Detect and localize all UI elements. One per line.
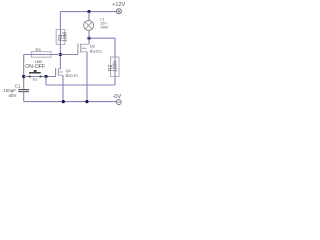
resistor R1 xyxy=(56,30,65,45)
wire Q2 drain lead xyxy=(88,38,90,44)
transistor Q1 bulk stub with arrow xyxy=(60,71,64,73)
transistor Q2 bulk stub with arrow xyxy=(83,47,88,49)
wire Q2 source lead xyxy=(86,52,88,102)
wire node A to R3 xyxy=(24,54,61,56)
transistor Q1 channel xyxy=(57,69,59,76)
transistor Q1 source stub xyxy=(58,74,63,76)
capacitor C1 xyxy=(18,89,29,91)
svg-text:10M: 10M xyxy=(63,32,69,42)
svg-text:S1: S1 xyxy=(32,77,38,82)
svg-text:R3: R3 xyxy=(36,47,42,52)
svg-text:10W: 10W xyxy=(100,26,108,30)
svg-text:100k: 100k xyxy=(112,61,118,72)
switch S1 actuator knob xyxy=(34,70,37,72)
transistor Q1 gate bar xyxy=(55,68,57,77)
svg-text:BS170: BS170 xyxy=(66,73,79,78)
wire C1 bottom lead xyxy=(23,92,25,101)
svg-text:-0V: -0V xyxy=(113,94,122,100)
junction dot Q1 source on rail xyxy=(62,100,65,103)
svg-text:BUZ11: BUZ11 xyxy=(90,49,103,54)
svg-text:ON-OFF: ON-OFF xyxy=(25,64,45,70)
lamp L1 xyxy=(84,20,94,30)
switch S1 right contact xyxy=(39,75,41,77)
wire R2 lead through xyxy=(89,38,115,85)
wire top rail +12V xyxy=(60,11,116,13)
wire Q1 drain lead xyxy=(59,55,61,69)
wire bottom rail xyxy=(24,101,117,103)
wire node C down xyxy=(45,77,47,86)
svg-text:40V: 40V xyxy=(8,93,16,98)
wire node A to Q2 gate xyxy=(60,54,78,56)
node B junction dot xyxy=(22,75,25,78)
transistor Q1 drain stub xyxy=(58,68,60,70)
terminal 0V xyxy=(116,100,121,105)
wire lamp bottom lead to node D xyxy=(88,30,90,38)
switch S1 pushbutton bridge xyxy=(29,72,41,74)
resistor R3 xyxy=(31,52,51,58)
node C junction dot on gate wire xyxy=(44,75,47,78)
wire Q1 source lead xyxy=(62,75,64,101)
node D junction dot lamp to Q2 drain xyxy=(87,37,90,40)
node A junction dot xyxy=(59,53,62,56)
switch S1 left contact xyxy=(29,75,31,77)
wire switch row xyxy=(24,76,56,78)
transistor Q2 drain stub xyxy=(81,43,89,45)
terminal +12V xyxy=(116,9,121,14)
wire R1 lead through xyxy=(59,12,61,55)
wire feedback return horizontal xyxy=(46,84,115,86)
wire left vertical xyxy=(23,55,25,90)
svg-text:+12V: +12V xyxy=(112,2,125,8)
junction dot Q2 source on rail xyxy=(85,100,88,103)
wire lamp top lead xyxy=(88,12,90,21)
transistor Q2 source stub xyxy=(81,51,87,53)
transistor Q2 channel xyxy=(80,44,82,53)
node E junction dot top rail xyxy=(87,10,90,13)
transistor Q2 gate bar xyxy=(77,44,79,55)
resistor R2 xyxy=(111,57,120,77)
